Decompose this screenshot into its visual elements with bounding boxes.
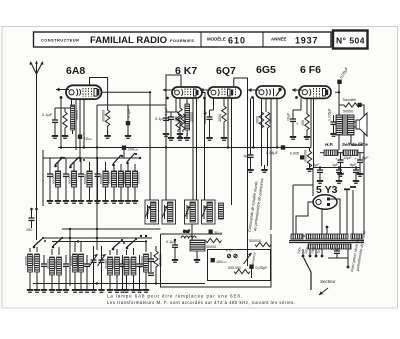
tube 6G5 grid-cap arrow — [248, 88, 259, 99]
wire 6Q7 pin drops — [214, 98, 232, 205]
resistor 500000 top right — [255, 242, 271, 246]
capacitor 0,05uF tone — [337, 80, 341, 93]
svg-text:1μ: 1μ — [203, 111, 207, 115]
svg-text:6 F6: 6 F6 — [300, 64, 321, 76]
svg-text:200cm: 200cm — [128, 147, 139, 152]
svg-text:11: 11 — [185, 211, 189, 215]
svg-text:300000: 300000 — [104, 259, 108, 269]
svg-text:75cm: 75cm — [84, 136, 93, 141]
svg-text:0,1μ: 0,1μ — [155, 116, 164, 121]
switch S2d — [126, 238, 137, 249]
coil L16 — [79, 242, 84, 287]
svg-text:ANNÉE: ANNÉE — [271, 37, 286, 42]
antenna — [30, 61, 44, 77]
wire osc vertical x128 — [127, 105, 129, 121]
svg-text:300000: 300000 — [31, 256, 35, 266]
antenna series capacitor 250 — [26, 208, 38, 232]
resistor 250000 AF — [154, 246, 158, 284]
wire 5Y3 frame left — [293, 185, 305, 236]
resistor 50000 under MF2 — [206, 238, 222, 242]
ground 1uF AVC — [247, 165, 253, 173]
capacitor 4uF HT — [313, 163, 323, 179]
svg-text:30000: 30000 — [190, 112, 194, 122]
coil row1-R2 — [118, 164, 123, 198]
svg-text:N° 504: N° 504 — [336, 36, 365, 46]
trimmer 75cm — [78, 135, 93, 142]
capacitor 0,005 blob — [300, 155, 304, 159]
ground coil L1 — [55, 196, 61, 204]
svg-text:1μF: 1μF — [332, 163, 339, 167]
wire 5Y3 frame top — [293, 185, 313, 196]
coil row1-L1 — [55, 162, 60, 198]
svg-text:300000: 300000 — [102, 110, 106, 122]
capacitor 0,1uF x128 — [126, 121, 130, 134]
coil L20 — [131, 248, 136, 286]
MF1 unit A — [145, 200, 159, 224]
capacitor 200cm — [122, 146, 139, 159]
resistor 400 under 6K7 — [178, 108, 182, 136]
svg-text:4μF: 4μF — [313, 163, 320, 167]
resistor 50000 cathode 6A8 — [71, 105, 75, 134]
AF inner box — [208, 250, 271, 281]
ground under small transformer — [194, 255, 200, 263]
coil L15 — [73, 242, 78, 287]
header outer box — [34, 32, 332, 47]
svg-text:500000: 500000 — [68, 174, 72, 184]
svg-text:CONSTRUCTEUR: CONSTRUCTEUR — [41, 38, 79, 43]
capacitor 0,005uF tone to ground — [331, 115, 337, 132]
wire coil row1 top bus — [43, 157, 140, 159]
trimmer T6 — [84, 255, 90, 286]
wire bus y105 — [97, 104, 166, 106]
svg-text:300000: 300000 — [120, 259, 124, 269]
svg-text:300000: 300000 — [46, 259, 50, 269]
wire 6K7 plate — [202, 93, 205, 125]
tuning gang CV1 — [90, 246, 98, 286]
tap dots — [302, 255, 350, 269]
resistor 300000 — [105, 110, 109, 134]
svg-text:300000: 300000 — [127, 259, 131, 269]
svg-text:500.000: 500.000 — [228, 266, 241, 270]
power transformer secondary HT — [306, 234, 348, 239]
switch S2c — [112, 239, 125, 250]
svg-text:500000: 500000 — [249, 239, 261, 243]
output transformer primary — [336, 115, 343, 135]
wire 6K7 grid left loop — [166, 75, 181, 200]
padder coil x221 — [219, 203, 224, 219]
ground coil R2 — [118, 196, 124, 204]
svg-text:0,05μF: 0,05μF — [256, 266, 269, 270]
speaker — [354, 113, 367, 136]
electrolytic 1uF AVC — [243, 154, 254, 168]
coil row1-L4 — [103, 162, 108, 198]
resistor 3000 under 6Q7 — [222, 106, 226, 136]
svg-text:2000000: 2000000 — [108, 172, 112, 184]
coil L12 — [35, 247, 40, 286]
capacitor 10uF under 6F6 — [290, 110, 301, 135]
wire HT bus — [313, 167, 360, 169]
capacitor 0,1uF under 6K7 — [163, 112, 178, 132]
wire OT to filter — [339, 135, 362, 150]
coil L13 — [50, 249, 55, 286]
coil L14 — [57, 247, 62, 286]
ground under 0,1uF AF — [172, 255, 178, 263]
resistor 400 under 6F6 — [305, 110, 309, 135]
capacitor 8uF HT — [350, 163, 359, 179]
svg-text:25000: 25000 — [183, 114, 187, 124]
svg-text:0,005μF: 0,005μF — [328, 108, 332, 121]
ground under 400 — [62, 131, 68, 139]
primary tap wires — [303, 249, 348, 266]
trimmer row1-1 — [47, 158, 53, 198]
coil L21 — [144, 242, 149, 287]
wire 6K7 pin drops — [176, 98, 197, 200]
wire 6A8 grid return — [60, 99, 62, 148]
svg-text:6A8: 6A8 — [66, 65, 85, 77]
svg-text:MODÈLE: MODÈLE — [207, 37, 226, 42]
svg-text:300000: 300000 — [111, 259, 115, 269]
wire x120 drop — [123, 150, 125, 158]
tube 6A8 grid-cap arrow — [56, 88, 69, 100]
tube 6F6 — [299, 86, 331, 98]
ground trimmer1 — [47, 196, 53, 204]
header divider 2 — [262, 32, 264, 47]
svg-text:50000: 50000 — [269, 114, 273, 124]
capacitor 12uF HT — [332, 163, 342, 179]
wire 5Y3 anode right — [330, 199, 340, 234]
ground coil R4 — [132, 196, 138, 204]
ground 6G5 — [261, 165, 267, 173]
coil row1-L3 — [87, 162, 92, 198]
tuning gang CV2 — [98, 246, 106, 286]
ground 6K7 cap — [168, 133, 174, 141]
svg-text:500000: 500000 — [99, 174, 103, 184]
svg-text:0,1μF: 0,1μF — [127, 108, 131, 118]
power transformer primary — [308, 244, 351, 249]
resistor 30000 under 6K7 — [185, 104, 190, 136]
tube 6A8 — [66, 85, 102, 99]
ground 6K7 screen — [184, 133, 190, 141]
coil row1-R1 — [111, 164, 116, 198]
ground 12uF — [337, 169, 343, 177]
output transformer secondary — [348, 115, 355, 135]
coil row1 right group — [108, 153, 141, 204]
svg-text:3000: 3000 — [218, 114, 222, 122]
svg-text:P.U.: P.U. — [226, 249, 233, 253]
wire 6F6 plate to OT — [335, 92, 339, 115]
wire mid vertical x247 — [247, 130, 249, 250]
ground trimmer3 — [78, 196, 84, 204]
trimmer T7 — [120, 255, 126, 286]
svg-text:50000: 50000 — [75, 110, 79, 120]
ground coil L4 — [102, 196, 108, 204]
HT takeoff bars — [344, 187, 356, 234]
capacitor 0,1uF under 6A8 — [52, 108, 72, 134]
AF outer box — [161, 234, 272, 287]
svg-text:400: 400 — [301, 120, 305, 126]
transformer center tap ground — [326, 226, 329, 234]
svg-text:8μF: 8μF — [362, 156, 369, 160]
wire 6A8 top grid loop — [90, 78, 108, 111]
svg-text:11: 11 — [146, 211, 150, 215]
tube 6K7 grid-cap arrow — [163, 88, 175, 99]
switch S1a — [69, 157, 85, 168]
ground 8uF — [357, 169, 363, 177]
capacitor 1uF+ under 6Q7 — [207, 110, 214, 136]
wire tone right — [361, 105, 364, 153]
ground 6F6 cathode — [304, 132, 310, 140]
resistor 50000 tone — [344, 103, 360, 107]
trimmer row1-3 — [78, 158, 84, 198]
wire right edge down — [363, 183, 365, 234]
tube 6F6 grid-cap arrow — [292, 88, 302, 99]
svg-text:FOURMIES: FOURMIES — [170, 38, 194, 43]
capacitor 0,04uF on AVC bus — [281, 145, 285, 149]
small transformer under MF2 — [190, 240, 205, 251]
coil L17 — [108, 250, 113, 286]
wire HT to 5Y3 — [312, 168, 314, 186]
svg-text:610: 610 — [228, 36, 246, 46]
ground under 300000 — [104, 131, 110, 139]
filter choke — [343, 150, 358, 156]
trimmer 150cm AF — [211, 258, 227, 264]
junction dots row2 top — [69, 228, 147, 237]
resistor 25000 under 6K7 — [181, 114, 185, 132]
tube 6K7 — [172, 87, 202, 98]
svg-text:0,1μF: 0,1μF — [331, 246, 342, 251]
ground 6F6 cap — [290, 132, 296, 140]
wire MF2 to transformer — [192, 224, 197, 258]
svg-text:10μF: 10μF — [287, 112, 291, 121]
wire left coil frame — [42, 150, 44, 206]
svg-text:H.P.: H.P. — [325, 142, 334, 147]
trimmer T4 — [41, 255, 47, 286]
wire tone left — [339, 92, 344, 105]
svg-text:500000: 500000 — [83, 174, 87, 184]
ground under 0,1uF — [52, 131, 58, 139]
ground 0,005 — [330, 129, 336, 137]
svg-text:300000: 300000 — [75, 256, 79, 266]
wire 6A8 pin drops — [72, 99, 98, 250]
ground 8uF HT — [353, 176, 359, 184]
under-MF capacitor 0,1uF — [166, 240, 178, 258]
svg-text:Tonalité: Tonalité — [342, 97, 357, 102]
wire choke row — [320, 153, 364, 183]
svg-text:30cm: 30cm — [214, 231, 223, 235]
wire AVC bus — [58, 147, 311, 149]
ground coil L3 — [86, 196, 92, 204]
trimmer T5 — [63, 255, 69, 286]
svg-text:300000: 300000 — [24, 256, 28, 266]
ground trimmer4 — [94, 196, 100, 204]
svg-text:6G5: 6G5 — [256, 64, 276, 76]
svg-text:50000: 50000 — [343, 110, 353, 114]
power transformer core — [289, 240, 364, 242]
svg-text:1000: 1000 — [256, 116, 260, 124]
ground coil L2 — [71, 196, 77, 204]
tube 6Q7 — [208, 87, 241, 98]
mains switch — [304, 258, 312, 291]
svg-text:Secteur: Secteur — [320, 279, 336, 284]
electrolytic 8uF — [355, 156, 370, 172]
capacitor 0,02 AF — [139, 252, 154, 275]
wire antenna to row2 — [36, 228, 38, 240]
svg-text:250: 250 — [26, 228, 32, 232]
AF outer box top edge — [161, 233, 223, 235]
ground 12uF HT — [336, 176, 342, 184]
ground 6K7 cathode — [177, 129, 183, 137]
wire 6F6 pin drops — [301, 98, 314, 167]
capacitor 0,05uF pot — [249, 265, 268, 279]
ground coil R3 — [125, 196, 131, 204]
svg-text:150cm: 150cm — [216, 260, 227, 264]
switch S1e — [126, 153, 137, 164]
tube 5Y3 — [313, 195, 337, 209]
switch S1z — [54, 157, 65, 167]
volume potentiometer — [244, 250, 252, 266]
field coil HP — [324, 150, 338, 156]
electrolytic 12uF — [335, 156, 352, 172]
switch S1d — [112, 155, 123, 166]
trimmer row1-4 — [95, 158, 101, 198]
ground 6K7 cathode — [177, 133, 183, 141]
tube 6Q7 grid-cap arrow — [200, 88, 211, 200]
trimmer row1-2 — [63, 158, 69, 198]
coil L19 — [124, 250, 129, 286]
trimmer 30cm — [209, 230, 223, 236]
svg-text:300000: 300000 — [69, 256, 73, 266]
svg-text:0,005: 0,005 — [290, 152, 299, 156]
svg-text:50000: 50000 — [206, 245, 216, 249]
switch S2b — [52, 237, 63, 248]
ground 4uF — [317, 176, 323, 184]
wire 5Y3 cathode down — [321, 208, 323, 234]
MF1 unit B — [162, 200, 176, 224]
wire 6A8 plate to MF1 — [101, 92, 150, 200]
row2 mid vertical x70 — [69, 229, 71, 286]
ground 6Q7 cathode — [221, 133, 227, 141]
resistor 50000 under 6G5 — [265, 112, 269, 166]
svg-text:12μF: 12μF — [343, 156, 352, 160]
coil row1 bank — [47, 157, 109, 204]
svg-text:Self: Self — [183, 230, 190, 234]
row2 bottom bus — [33, 283, 205, 285]
ground row2 set — [27, 285, 33, 293]
svg-text:300000: 300000 — [53, 259, 57, 269]
svg-text:500000: 500000 — [52, 174, 56, 184]
ground 6Q7 cap — [206, 133, 212, 141]
ground trimmer2 — [63, 196, 69, 204]
svg-text:1μ: 1μ — [243, 154, 247, 158]
coil L18 — [115, 249, 120, 286]
resistor 400 under 6A8 — [63, 108, 67, 134]
wire 6Q7 plate loop — [234, 78, 248, 130]
svg-text:Les transformateurs M. F. sont: Les transformateurs M. F. sont accordés … — [107, 300, 295, 305]
svg-text:0,02: 0,02 — [139, 265, 146, 269]
wire antenna lead — [36, 76, 38, 215]
wire 6G5 pin drops — [251, 98, 278, 230]
coil row1-R4 — [132, 164, 137, 198]
header box N 504 — [333, 31, 368, 49]
tube 6G5 — [256, 86, 285, 98]
switch S2a — [33, 237, 46, 248]
resistor 300 under 6K7 — [176, 114, 180, 132]
coil row1-R3 — [125, 164, 130, 198]
AF choke Self — [181, 230, 196, 239]
wire upper row2 bus — [62, 228, 161, 230]
row2 top wires — [44, 237, 152, 239]
MF2 unit A — [184, 200, 198, 224]
power transformer secondary 6v — [351, 234, 362, 239]
MF2 unit B — [201, 200, 215, 224]
svg-text:0,1μF: 0,1μF — [42, 112, 53, 117]
ground under x128 cap — [125, 131, 131, 139]
svg-text:Self de filtre: Self de filtre — [342, 142, 368, 147]
svg-text:2000000: 2000000 — [137, 172, 141, 184]
output transformer core — [343, 114, 345, 136]
resistor 300000 AVC end — [307, 148, 311, 169]
ground coil R1 — [111, 196, 117, 204]
header divider 1 — [200, 32, 202, 47]
svg-text:1937: 1937 — [295, 36, 318, 46]
coil row1-L2 — [71, 162, 76, 198]
svg-text:La lampe 6A8 peut être remplac: La lampe 6A8 peut être remplacée par une… — [107, 294, 242, 299]
svg-text:FAMILIAL RADIO: FAMILIAL RADIO — [90, 35, 167, 46]
coil L11 — [28, 248, 33, 286]
capacitor 0,1uF mains — [328, 246, 348, 258]
resistor 500000 inner — [234, 269, 250, 273]
PU terminals — [226, 249, 237, 258]
secteur arrow — [319, 288, 328, 295]
trimmer T8 — [137, 255, 143, 286]
wire 5Y3 filament left — [296, 202, 314, 234]
svg-text:6Q7: 6Q7 — [216, 65, 236, 77]
ground 6K7 left — [163, 129, 169, 137]
ground 300000 — [306, 164, 312, 172]
power transformer secondary 5V — [291, 234, 303, 239]
resistor 1000 under 6G5 — [259, 112, 263, 166]
svg-text:2000000: 2000000 — [122, 172, 126, 184]
capacitor 0,1uF under 6K7 — [164, 106, 176, 136]
